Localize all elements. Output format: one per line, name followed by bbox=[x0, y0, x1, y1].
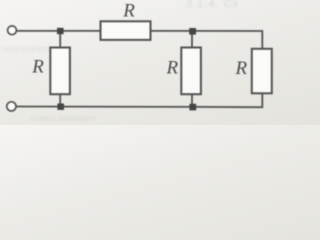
node C junction dot (bottom rail / R2) bbox=[57, 104, 64, 110]
resistor R4 (third shunt, vertical) bbox=[252, 49, 272, 94]
label R2 value bbox=[31, 57, 44, 78]
label R1 value bbox=[122, 1, 135, 22]
node D junction dot (bottom rail / R3) bbox=[189, 104, 196, 111]
wire: top rail left segment bbox=[17, 30, 101, 32]
faint page bleed-through text bottom bbox=[30, 113, 95, 123]
wire: branch from node A down to R2 top bbox=[59, 31, 61, 48]
resistor R2 (first shunt, vertical) bbox=[50, 48, 70, 95]
node A junction dot (top rail / R2) bbox=[57, 28, 64, 34]
label R4 value bbox=[235, 58, 248, 79]
faint page bleed-through text top right bbox=[186, 0, 239, 10]
svg-text:R: R bbox=[235, 58, 248, 79]
terminal: input top bbox=[8, 26, 17, 35]
wire: R3 bottom lead bbox=[191, 94, 193, 107]
wire: top rail right segment with corner down to R4 bbox=[151, 31, 263, 49]
wire: R2 bottom lead bbox=[59, 94, 61, 106]
resistor R1 (series, horizontal) bbox=[101, 21, 151, 40]
wire: bottom rail with corner up to R4 bottom bbox=[16, 93, 262, 107]
node B junction dot (top rail / R3) bbox=[189, 28, 196, 35]
label R3 value bbox=[166, 57, 179, 78]
terminal: input bottom bbox=[7, 102, 16, 111]
faint page bleed-through text mid left bbox=[2, 44, 52, 54]
resistor R3 (second shunt, vertical) bbox=[181, 48, 201, 95]
svg-text:R: R bbox=[31, 57, 44, 78]
svg-text:R: R bbox=[166, 57, 179, 78]
wire: branch from node B down to R3 top bbox=[191, 31, 193, 48]
svg-text:R: R bbox=[122, 1, 135, 22]
